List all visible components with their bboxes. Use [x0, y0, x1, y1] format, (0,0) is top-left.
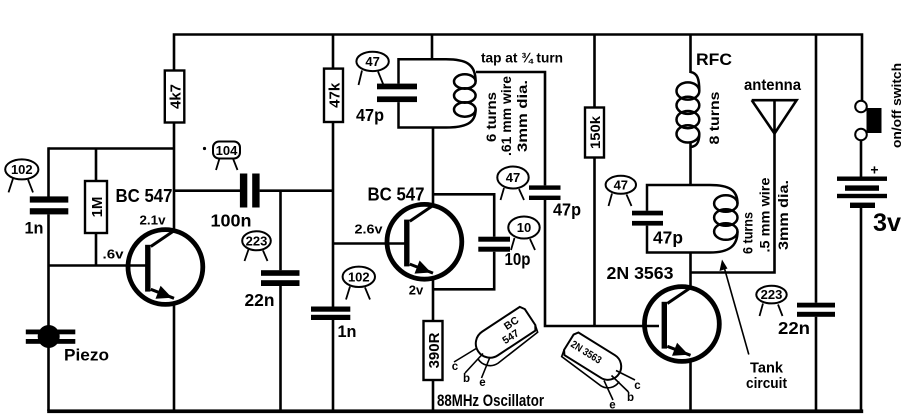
wire 22n bottom [279, 286, 282, 411]
svg-text:tap at ¾ turn: tap at ¾ turn [481, 51, 563, 66]
wire RFC top [689, 35, 692, 74]
svg-text:102: 102 [348, 269, 370, 284]
svg-text:47: 47 [614, 177, 628, 192]
svg-text:b: b [463, 373, 470, 385]
wire top rail [174, 35, 862, 102]
wire Q3 emitter [689, 361, 692, 412]
battery B1 3v [837, 177, 887, 209]
wire 47p to base [545, 200, 659, 326]
wire 10p top [433, 194, 494, 236]
inductor L1 tank outline [399, 59, 476, 127]
inductor RFC loops [677, 72, 700, 147]
inductor L2 tank outline [647, 185, 738, 253]
svg-text:+: + [870, 162, 878, 178]
antenna symbol [752, 100, 797, 133]
balloon 223 second [756, 286, 786, 316]
capacitor C6 10p plates [478, 237, 510, 242]
svg-text:c: c [452, 361, 459, 373]
wire Q2 base [333, 242, 405, 245]
wire 100n left [174, 189, 240, 192]
resistor R5 150k [585, 108, 604, 158]
svg-text:circuit: circuit [746, 375, 787, 392]
svg-text:390R: 390R [426, 332, 443, 368]
resistor R4 390R [424, 321, 443, 380]
svg-text:88MHz Oscillator: 88MHz Oscillator [437, 392, 544, 410]
svg-text:6 turns: 6 turns [741, 212, 756, 254]
svg-text:on/off switch: on/off switch [890, 63, 904, 148]
balloon 47 second [497, 167, 528, 201]
svg-text:RFC: RFC [696, 50, 732, 69]
wire Q1 base [49, 264, 147, 267]
capacitor C5 47p plates [377, 84, 417, 90]
wire bottom rail [47, 409, 863, 413]
svg-text:10p: 10p [505, 249, 531, 269]
svg-text:10: 10 [517, 220, 531, 235]
svg-text:47: 47 [365, 54, 379, 69]
balloon 10 [508, 217, 539, 251]
svg-text:.6v: .6v [103, 247, 125, 262]
svg-text:antenna: antenna [744, 77, 801, 94]
svg-text:3v: 3v [873, 209, 901, 237]
wire RFC bottom [689, 142, 692, 185]
svg-text:b: b [627, 392, 634, 404]
wire 47k bottom [332, 122, 335, 307]
wire 22n2 bottom [815, 317, 818, 411]
wire left vertical mid [47, 214, 50, 326]
wire tank1 feed [431, 35, 434, 60]
wire switch to battery [860, 140, 863, 176]
svg-text:4k7: 4k7 [167, 84, 184, 109]
svg-text:8 turns: 8 turns [707, 92, 722, 145]
svg-text:c: c [634, 380, 641, 392]
svg-text:100n: 100n [211, 211, 252, 231]
wire tap [476, 72, 545, 185]
balloon 102 [5, 159, 38, 192]
svg-text:47p: 47p [653, 228, 683, 248]
wire 390R bottom [432, 380, 435, 411]
svg-text:Tank: Tank [750, 360, 784, 377]
arrow to tank [720, 260, 749, 355]
wire battery to rail [860, 208, 863, 411]
svg-text:47: 47 [506, 170, 520, 185]
svg-text:e: e [609, 400, 615, 412]
wire left vertical lower [47, 347, 50, 411]
wire 100n right [260, 189, 333, 192]
wire Q2 collector [432, 128, 435, 206]
svg-text:2.6v: 2.6v [355, 222, 384, 237]
wire 22n2 top [815, 35, 818, 303]
wire 150k top [593, 35, 596, 108]
svg-text:47p: 47p [356, 105, 384, 125]
svg-text:2N 3563: 2N 3563 [607, 263, 674, 283]
resistor R3 47k [324, 69, 343, 122]
inductor L2 loops [714, 195, 737, 240]
balloon 47 third [606, 176, 636, 206]
resistor R2 4k7 [165, 71, 185, 123]
wire Q3 collector [689, 253, 692, 288]
switch S1 on/off [855, 101, 881, 141]
transistor Q2 BC547 [387, 204, 462, 279]
wire Q1 collector [173, 123, 176, 231]
balloon 47 [356, 52, 388, 85]
package 2N3563 TO-92 [558, 331, 641, 412]
svg-text:104: 104 [216, 143, 238, 158]
wire 47k top [332, 35, 335, 69]
svg-text:2.1v: 2.1v [140, 213, 167, 228]
wire left vertical upper [47, 147, 50, 196]
capacitor C7 47p plates [529, 185, 561, 189]
svg-text:BC 547: BC 547 [116, 186, 173, 206]
svg-text:Piezo: Piezo [64, 347, 109, 365]
svg-text:22n: 22n [778, 318, 810, 338]
wire 22n top [279, 191, 282, 271]
svg-text:.5 mm wire: .5 mm wire [758, 177, 773, 253]
svg-text:6 turns: 6 turns [484, 92, 499, 142]
svg-text:47k: 47k [326, 82, 343, 108]
wire antenna [691, 134, 775, 273]
wire left bias node horizontal [49, 147, 175, 150]
svg-text:223: 223 [246, 233, 268, 248]
piezo element [26, 325, 76, 348]
svg-text:.61 mm wire: .61 mm wire [499, 75, 514, 156]
balloon 104 [203, 142, 240, 171]
inductor L1 loops [454, 74, 476, 116]
svg-text:47p: 47p [553, 200, 581, 220]
svg-text:e: e [479, 377, 485, 389]
svg-text:223: 223 [761, 287, 783, 302]
svg-text:1n: 1n [25, 219, 44, 238]
wire 1n bottom [332, 320, 335, 411]
capacitor C3 22n plates [261, 270, 300, 276]
svg-text:BC 547: BC 547 [368, 185, 425, 205]
balloon 102 second [343, 267, 375, 300]
transistor Q1 BC547 [128, 230, 203, 305]
wire Q2 emitter [432, 278, 435, 321]
capacitor C1 1n plates [30, 196, 69, 202]
capacitor C2 100n plates [240, 174, 247, 208]
package BC547 TO-92 [452, 305, 542, 389]
wire Q1 emitter [173, 304, 176, 412]
balloon 223 [242, 231, 271, 261]
wire 1M top [95, 149, 98, 182]
resistor R1 1M [85, 181, 107, 233]
svg-text:1n: 1n [338, 322, 357, 341]
capacitor C8 47p plates [632, 211, 663, 216]
wire 1M bottom [95, 233, 98, 266]
capacitor C9 22n plates [797, 303, 835, 308]
svg-text:102: 102 [11, 162, 33, 177]
svg-text:22n: 22n [245, 290, 275, 310]
svg-text:1M: 1M [89, 197, 106, 218]
wire 10p bottom [433, 252, 494, 290]
wire 150k bottom [593, 158, 596, 327]
svg-text:3mm dia.: 3mm dia. [515, 80, 530, 152]
svg-text:3mm dia.: 3mm dia. [776, 180, 791, 250]
capacitor C4 1n plates [311, 307, 350, 312]
transistor Q3 2N3563 [645, 287, 720, 362]
svg-text:150k: 150k [587, 116, 603, 149]
svg-text:2v: 2v [409, 283, 424, 298]
